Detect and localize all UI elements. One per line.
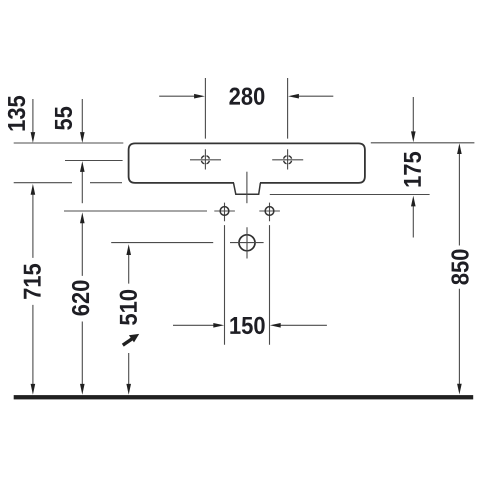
drain centerline (246, 172, 248, 204)
dimension 850 line (458, 153, 460, 386)
dimension 175 lower arrow (412, 205, 414, 237)
mounting hole right (259, 203, 280, 222)
rim height extension line right (371, 142, 475, 144)
drain circle crosshair (230, 227, 264, 258)
floor line (14, 395, 474, 399)
faucet hole height extension line left (65, 160, 123, 162)
dimension 620 label (72, 281, 89, 316)
drain flange extension line right (270, 194, 430, 196)
dimension 620 line (81, 222, 83, 386)
dimension 715 line (32, 194, 34, 386)
dimension 135 label (8, 96, 25, 131)
basin outline (129, 143, 365, 183)
rim height extension line left (14, 142, 124, 144)
dimension 175 label (404, 152, 421, 187)
adjustable height arrow (123, 339, 132, 345)
dimension 175 upper arrow (412, 97, 414, 133)
dimension 280 right arrow (298, 95, 333, 97)
drain circle (239, 235, 255, 251)
faucet hole right crosshair (272, 149, 303, 169)
dimension 150 right arrow (280, 324, 327, 326)
drain opening patch (234, 181, 260, 185)
faucet hole left crosshair (190, 149, 221, 169)
dimension 55 upper arrow (81, 99, 83, 134)
dimension 150 label (230, 317, 264, 334)
drain center height extension line (111, 242, 213, 244)
dimension 135 upper arrow (32, 99, 34, 134)
dimension 280 label (229, 88, 264, 105)
mounting hole left (214, 203, 235, 222)
basin bottom extension line left (14, 182, 122, 184)
drain trapezoid (234, 183, 261, 194)
dimension 510 label (120, 290, 137, 325)
dimension 280 left arrow (159, 95, 195, 97)
dimension 510 line (128, 254, 130, 386)
dimension 280 extension lines (205, 78, 287, 139)
dimension 715 label (24, 264, 41, 299)
dimension 150 extension lines (225, 225, 270, 345)
dimension 150 left arrow (173, 324, 215, 326)
dimension 55 label (55, 107, 72, 130)
dimension 55 lower arrow (81, 171, 83, 204)
dimension 850 label (451, 250, 468, 285)
mounting holes height line (64, 210, 207, 212)
